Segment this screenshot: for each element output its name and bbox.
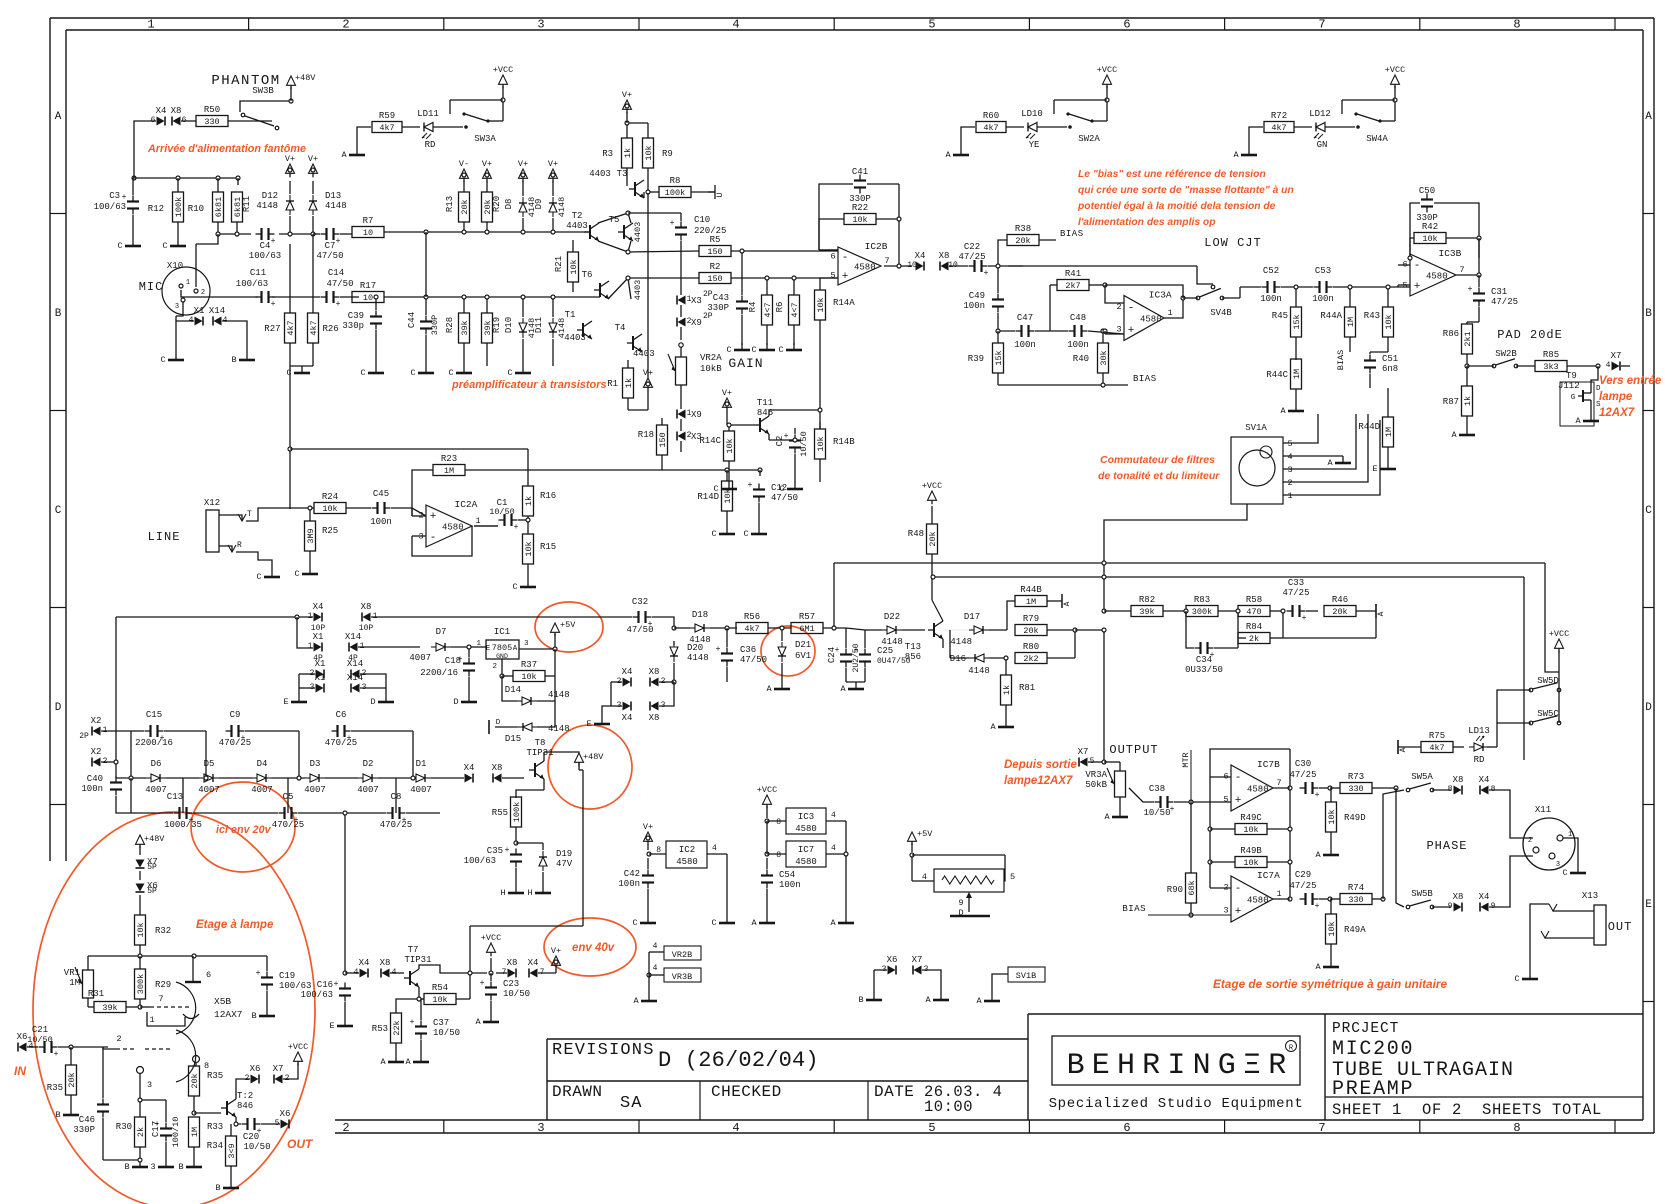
svg-text:D16: D16	[950, 654, 966, 664]
svg-text:3: 3	[1556, 861, 1560, 869]
svg-text:A: A	[1315, 850, 1321, 860]
svg-text:C: C	[711, 918, 716, 928]
svg-text:BIAS: BIAS	[1336, 350, 1346, 370]
resistor R87 1k	[1462, 386, 1473, 416]
svg-text:V+: V+	[643, 822, 653, 832]
svg-text:E: E	[586, 719, 591, 729]
ground X13	[1529, 972, 1531, 979]
box SV1B	[1008, 967, 1045, 982]
svg-text:+: +	[984, 269, 989, 278]
wire x1210 vertical	[1209, 777, 1211, 888]
svg-text:TIP31: TIP31	[526, 748, 553, 758]
svg-text:V+: V+	[482, 159, 492, 169]
capacitor C40 100n	[115, 777, 117, 783]
wire IC2B out	[884, 265, 912, 267]
connector X7 5P tube	[136, 860, 145, 868]
wire bus y564	[834, 562, 1545, 564]
wire C46 R30 tie	[103, 1159, 140, 1161]
svg-text:5P: 5P	[147, 887, 157, 896]
svg-text:4148: 4148	[548, 724, 570, 734]
svg-text:68k: 68k	[1187, 880, 1197, 895]
svg-text:D5: D5	[204, 759, 215, 769]
svg-text:Le "bias" est une référence de: Le "bias" est une référence de tension	[1078, 169, 1266, 180]
diode D12 4148	[286, 195, 294, 215]
triode grid pin7	[150, 1006, 192, 1008]
svg-text:OUT: OUT	[287, 1137, 314, 1151]
svg-text:C40: C40	[87, 774, 103, 784]
connector X14 pin1 4P	[350, 643, 358, 652]
svg-text:100n: 100n	[779, 880, 801, 890]
connector X4 pin2 mid	[623, 678, 631, 687]
box VR2B	[664, 946, 701, 960]
svg-text:SW5D: SW5D	[1537, 676, 1559, 686]
svg-text:-: -	[430, 532, 437, 544]
svg-text:+VCC: +VCC	[1097, 65, 1117, 75]
wire R9 column long vertical	[647, 193, 649, 378]
svg-text:C41: C41	[852, 167, 868, 177]
svg-text:D: D	[496, 719, 501, 727]
capacitor C48 100n	[1069, 330, 1075, 332]
ground X1 E	[298, 695, 300, 702]
transistor T5 4403	[623, 225, 625, 239]
svg-text:1k: 1k	[1002, 685, 1012, 695]
svg-text:A: A	[633, 996, 639, 1006]
resistor R34 3k9	[226, 1136, 237, 1166]
connector X3 lower	[678, 432, 686, 441]
power +VCC SW3A	[499, 75, 508, 84]
svg-text:+: +	[1128, 325, 1135, 337]
svg-text:D (26/02/04): D (26/02/04)	[658, 1048, 819, 1073]
led LD11 RD	[422, 123, 433, 140]
resistor R83 300k	[1186, 606, 1218, 617]
resistor R10 6k81	[213, 192, 224, 222]
svg-text:6: 6	[206, 970, 211, 980]
svg-text:X4: X4	[622, 667, 633, 677]
resistor R46 20k	[1324, 606, 1356, 617]
connector X7 pin5 output	[1080, 758, 1088, 767]
svg-text:X6: X6	[17, 1032, 28, 1042]
svg-text:4580: 4580	[1247, 785, 1269, 795]
svg-text:C13: C13	[167, 792, 183, 802]
svg-text:4403: 4403	[566, 221, 588, 231]
svg-text:C11: C11	[250, 268, 266, 278]
resistor R90 68k	[1190, 802, 1192, 873]
ground R44C	[1295, 404, 1297, 411]
svg-text:R14B: R14B	[833, 437, 855, 447]
svg-text:4580: 4580	[1247, 896, 1269, 906]
svg-text:4k7: 4k7	[1271, 123, 1286, 133]
svg-text:R43: R43	[1364, 311, 1380, 321]
svg-text:B: B	[178, 1162, 183, 1172]
svg-text:R73: R73	[1348, 772, 1364, 782]
svg-text:4: 4	[712, 844, 717, 853]
svg-text:4k7: 4k7	[983, 123, 998, 133]
connector X7 pin3 mid	[914, 966, 922, 975]
svg-text:50kB: 50kB	[1085, 780, 1107, 790]
svg-text:R26: R26	[323, 324, 339, 334]
svg-text:T7: T7	[408, 945, 419, 955]
svg-text:C52: C52	[1263, 266, 1279, 276]
triode cathode pin1	[183, 1014, 199, 1019]
svg-text:A: A	[1233, 150, 1239, 160]
svg-text:8: 8	[1448, 785, 1453, 794]
connector X7 pin2 tube	[275, 1075, 283, 1084]
diode D3 4007	[305, 774, 325, 782]
svg-text:R59: R59	[379, 111, 395, 121]
svg-text:4148: 4148	[950, 637, 972, 647]
svg-text:1k: 1k	[1463, 396, 1473, 406]
resistor R16 1k	[523, 486, 534, 516]
svg-text:R44C: R44C	[1266, 370, 1288, 380]
svg-text:MTR: MTR	[1181, 752, 1191, 767]
connector X14 pin3	[352, 684, 360, 693]
ground X14 D	[385, 695, 387, 702]
resistor R50 330	[196, 116, 228, 127]
op-amp IC2A	[426, 505, 472, 547]
wire phase crossover	[1394, 786, 1398, 790]
svg-text:47/50: 47/50	[740, 655, 767, 665]
svg-text:A: A	[830, 918, 836, 928]
svg-text:R45: R45	[1272, 311, 1288, 321]
wire ladder out	[431, 777, 464, 779]
svg-text:X7: X7	[912, 955, 923, 965]
svg-text:+: +	[505, 846, 510, 855]
power V+ D13	[309, 164, 318, 173]
svg-text:C51: C51	[1382, 354, 1398, 364]
svg-text:IC2: IC2	[679, 845, 695, 855]
svg-text:R16: R16	[540, 491, 556, 501]
svg-text:D1: D1	[416, 759, 427, 769]
svg-text:GND: GND	[496, 653, 508, 660]
resistor R5 150	[699, 246, 731, 257]
svg-text:330P: 330P	[430, 315, 440, 335]
ground X14	[246, 353, 248, 360]
resistor R82 39k	[1131, 606, 1163, 617]
svg-text:3: 3	[537, 18, 544, 32]
wire x1290 vertical	[1289, 749, 1291, 899]
capacitor C11 100/63	[256, 296, 262, 298]
svg-text:R37: R37	[521, 660, 537, 670]
svg-text:X7: X7	[1078, 747, 1089, 757]
svg-text:l'alimentation des amplis op: l'alimentation des amplis op	[1078, 217, 1215, 228]
svg-text:8: 8	[776, 818, 781, 827]
capacitor C30 47/25	[1300, 787, 1306, 789]
svg-text:100n: 100n	[618, 879, 640, 889]
wires preamp core	[598, 213, 628, 223]
svg-text:V+: V+	[548, 159, 558, 169]
svg-text:1M: 1M	[69, 978, 80, 988]
svg-text:+: +	[842, 271, 849, 283]
triode plate pin6	[185, 981, 201, 983]
svg-text:C: C	[256, 572, 261, 582]
op-amp IC7B	[1231, 765, 1273, 811]
capacitor C25 0u47/50	[864, 649, 866, 655]
wire	[181, 120, 196, 122]
power +VCC SW2A	[1103, 75, 1112, 84]
svg-text:CHECKED: CHECKED	[711, 1083, 782, 1101]
svg-text:A: A	[840, 684, 846, 694]
connector X9 lower	[678, 410, 686, 419]
svg-text:R35: R35	[207, 1071, 223, 1081]
svg-text:+VCC: +VCC	[481, 933, 501, 943]
ground R46	[1375, 604, 1377, 618]
capacitor C14 47/50	[321, 296, 327, 298]
op-amp IC3B	[1410, 254, 1456, 296]
svg-text:470: 470	[1246, 607, 1261, 617]
svg-text:C23: C23	[503, 979, 519, 989]
wire mid power	[116, 616, 313, 618]
svg-text:IC7A: IC7A	[1257, 870, 1280, 881]
resistor R1 1k	[623, 368, 634, 398]
ground SV1A	[1342, 456, 1344, 463]
svg-text:10k: 10k	[569, 259, 579, 274]
resistor R44C 1M	[1291, 359, 1302, 389]
svg-text:4148: 4148	[325, 201, 347, 211]
svg-text:150: 150	[658, 432, 668, 447]
svg-text:4: 4	[922, 872, 927, 882]
svg-text:T11: T11	[757, 398, 773, 408]
svg-text:MIC200: MIC200	[1332, 1038, 1414, 1061]
svg-text:X3: X3	[691, 296, 702, 306]
ic IC7 4580 power	[786, 841, 826, 867]
svg-text:100/63: 100/63	[94, 202, 126, 212]
svg-text:330p: 330p	[342, 321, 364, 331]
box VR3B	[664, 968, 701, 982]
ground D15	[488, 720, 490, 734]
svg-text:4k7: 4k7	[309, 320, 319, 335]
svg-text:10k: 10k	[723, 488, 733, 503]
capacitor C19 100/63	[266, 972, 268, 978]
connector X6 pin3 mid	[888, 966, 896, 975]
svg-text:C16: C16	[317, 980, 333, 990]
svg-text:7: 7	[158, 994, 163, 1004]
svg-text:C54: C54	[779, 870, 795, 880]
svg-text:RD: RD	[1474, 755, 1485, 765]
svg-text:X14: X14	[345, 632, 361, 642]
resistor R55 100k	[511, 797, 522, 827]
resistor R12 100k	[173, 192, 184, 222]
svg-text:6V1: 6V1	[795, 651, 811, 661]
svg-text:+: +	[854, 646, 859, 655]
capacitor C1 10/50	[499, 519, 505, 521]
transistor T4 4403	[632, 336, 634, 350]
wire right edge vertical	[1606, 365, 1608, 367]
wires T11	[768, 434, 770, 440]
resistor R17 10	[352, 292, 384, 303]
connector X4 pin9 out	[1481, 903, 1489, 912]
resistor R72 4k7	[1264, 122, 1294, 133]
connector X4 pin1 10P	[314, 613, 322, 622]
svg-text:1: 1	[147, 18, 154, 32]
svg-text:IC7: IC7	[798, 845, 814, 855]
svg-text:R20: R20	[492, 196, 502, 212]
svg-text:B: B	[1645, 308, 1652, 320]
svg-text:X4: X4	[359, 958, 370, 968]
svg-text:potentiel égal à la moitié del: potentiel égal à la moitié dela tension …	[1077, 201, 1276, 212]
capacitor C54 100n	[766, 870, 768, 876]
ground VR2B	[648, 994, 650, 1001]
svg-text:R42: R42	[1422, 222, 1438, 232]
svg-text:2k1: 2k1	[1463, 331, 1473, 346]
wire T7 collector	[419, 965, 470, 973]
svg-text:A: A	[990, 722, 996, 732]
connector X8 pin7	[508, 969, 516, 978]
op-amp IC3A	[1124, 296, 1164, 341]
resistor R15 10k	[523, 534, 534, 564]
switch SW5A	[1406, 788, 1410, 792]
svg-text:+VCC: +VCC	[288, 1042, 308, 1052]
capacitor C51 6n8	[1369, 355, 1371, 361]
svg-text:SW5B: SW5B	[1411, 889, 1433, 899]
svg-text:T4: T4	[615, 323, 626, 333]
svg-text:4007: 4007	[251, 785, 273, 795]
svg-text:R84: R84	[1246, 622, 1262, 632]
svg-text:R11: R11	[242, 196, 252, 212]
svg-text:100n: 100n	[1067, 340, 1089, 350]
ground C19	[266, 1009, 268, 1016]
power V+ env40	[552, 956, 561, 965]
svg-text:100n: 100n	[1312, 294, 1334, 304]
svg-text:R14D: R14D	[697, 492, 719, 502]
ground T9	[1590, 414, 1592, 421]
svg-text:R55: R55	[492, 808, 508, 818]
capacitor C39 330p	[375, 311, 377, 317]
svg-text:100k: 100k	[174, 197, 184, 217]
svg-text:4580: 4580	[1426, 272, 1448, 282]
svg-text:4: 4	[1606, 361, 1611, 370]
svg-text:D: D	[453, 697, 458, 707]
svg-text:R14A: R14A	[833, 298, 855, 308]
ground R12	[177, 239, 179, 246]
ground R75	[1397, 740, 1399, 754]
resistor R54 10k	[424, 994, 456, 1005]
svg-text:C46: C46	[79, 1115, 95, 1125]
svg-text:2: 2	[116, 1034, 121, 1044]
svg-text:C21: C21	[32, 1025, 48, 1035]
svg-text:V+: V+	[643, 368, 653, 378]
resistor R85 3k3	[1535, 361, 1567, 372]
svg-text:qui crée une sorte de "masse f: qui crée une sorte de "masse flottante" …	[1078, 185, 1294, 196]
diode D17 4148	[969, 626, 989, 634]
svg-text:5: 5	[830, 271, 835, 281]
svg-text:SW2A: SW2A	[1078, 134, 1100, 144]
svg-text:4148: 4148	[687, 653, 709, 663]
svg-text:D6: D6	[151, 759, 162, 769]
svg-text:4580: 4580	[795, 824, 817, 834]
transistor T6 4403	[599, 283, 601, 297]
transistor T13 856	[933, 623, 935, 637]
diode D4 4007	[252, 774, 272, 782]
svg-text:6: 6	[151, 116, 156, 125]
svg-text:X8: X8	[380, 958, 391, 968]
ground R87	[1466, 428, 1468, 435]
resistor R22 10k	[844, 214, 876, 225]
diode D2 4007	[358, 774, 378, 782]
svg-text:G: G	[1571, 394, 1576, 402]
svg-text:R54: R54	[432, 983, 448, 993]
svg-text:10k: 10k	[852, 215, 867, 225]
svg-text:SW3B: SW3B	[252, 86, 274, 96]
svg-text:10: 10	[363, 228, 373, 238]
wire C10 column	[680, 213, 682, 221]
capacitor C32 47/50	[420, 616, 632, 618]
svg-text:1M: 1M	[1384, 427, 1394, 437]
svg-text:-: -	[842, 252, 849, 264]
svg-text:+: +	[271, 237, 276, 246]
svg-text:D22: D22	[884, 612, 900, 622]
svg-text:10: 10	[363, 293, 373, 303]
ground C42	[647, 916, 649, 923]
wire bus y578	[933, 576, 1524, 578]
svg-text:C49: C49	[969, 291, 985, 301]
svg-text:X8: X8	[1453, 892, 1464, 902]
capacitor C12 47/50	[758, 484, 760, 490]
resistor R19 39k	[482, 313, 493, 343]
ground C2	[794, 482, 796, 489]
ground IC2 pin4	[726, 854, 728, 916]
svg-text:47/25: 47/25	[1491, 297, 1518, 307]
svg-text:3: 3	[175, 303, 179, 311]
svg-text:LD10: LD10	[1021, 109, 1043, 119]
svg-text:C: C	[160, 355, 165, 365]
svg-text:6n8: 6n8	[1382, 364, 1398, 374]
op-amp IC2B	[838, 247, 881, 285]
ground R14C	[728, 482, 730, 489]
resistor R2 150	[699, 273, 731, 284]
wire y926	[470, 925, 583, 927]
resistor R4 4k7	[762, 295, 773, 325]
wire limiter to output bus	[1075, 629, 1104, 631]
svg-text:2: 2	[1287, 478, 1292, 488]
svg-text:10: 10	[907, 261, 917, 270]
svg-text:-: -	[1235, 772, 1242, 784]
svg-text:X4: X4	[464, 763, 475, 773]
capacitor C7 47/50	[321, 233, 327, 235]
svg-text:4007: 4007	[357, 785, 379, 795]
resistor R13 20k	[459, 192, 470, 222]
capacitor C47 100n	[1016, 330, 1022, 332]
svg-text:V+: V+	[551, 946, 561, 956]
svg-text:R32: R32	[155, 926, 171, 936]
svg-text:C: C	[55, 505, 62, 517]
svg-text:C8: C8	[391, 792, 402, 802]
svg-text:PREAMP: PREAMP	[1332, 1078, 1414, 1101]
wire T7 emitter	[419, 987, 424, 999]
connector X4 pin6	[157, 117, 165, 126]
svg-text:+: +	[1302, 614, 1307, 623]
svg-text:A: A	[1575, 416, 1581, 426]
svg-text:C17: C17	[151, 1121, 161, 1137]
svg-text:47/50: 47/50	[326, 279, 353, 289]
svg-text:U: U	[715, 192, 725, 197]
svg-text:Etage à lampe: Etage à lampe	[196, 919, 274, 931]
svg-text:330: 330	[1348, 784, 1363, 794]
ground R34	[230, 1181, 232, 1188]
svg-text:T8: T8	[535, 738, 546, 748]
svg-text:T2: T2	[572, 211, 583, 221]
svg-text:GAIN: GAIN	[728, 356, 763, 371]
capacitor C46 330p	[102, 1099, 104, 1105]
svg-text:3: 3	[150, 1162, 155, 1172]
connector X14 pin2	[352, 670, 360, 679]
svg-text:+5V: +5V	[917, 829, 933, 839]
capacitor C45 100n	[372, 507, 378, 509]
svg-text:X4: X4	[915, 251, 926, 261]
svg-text:100/63: 100/63	[249, 251, 281, 261]
wire IC3/IC7 pin4 down	[845, 821, 847, 916]
svg-text:C37: C37	[433, 1018, 449, 1028]
led LD10 YE	[1026, 123, 1037, 140]
